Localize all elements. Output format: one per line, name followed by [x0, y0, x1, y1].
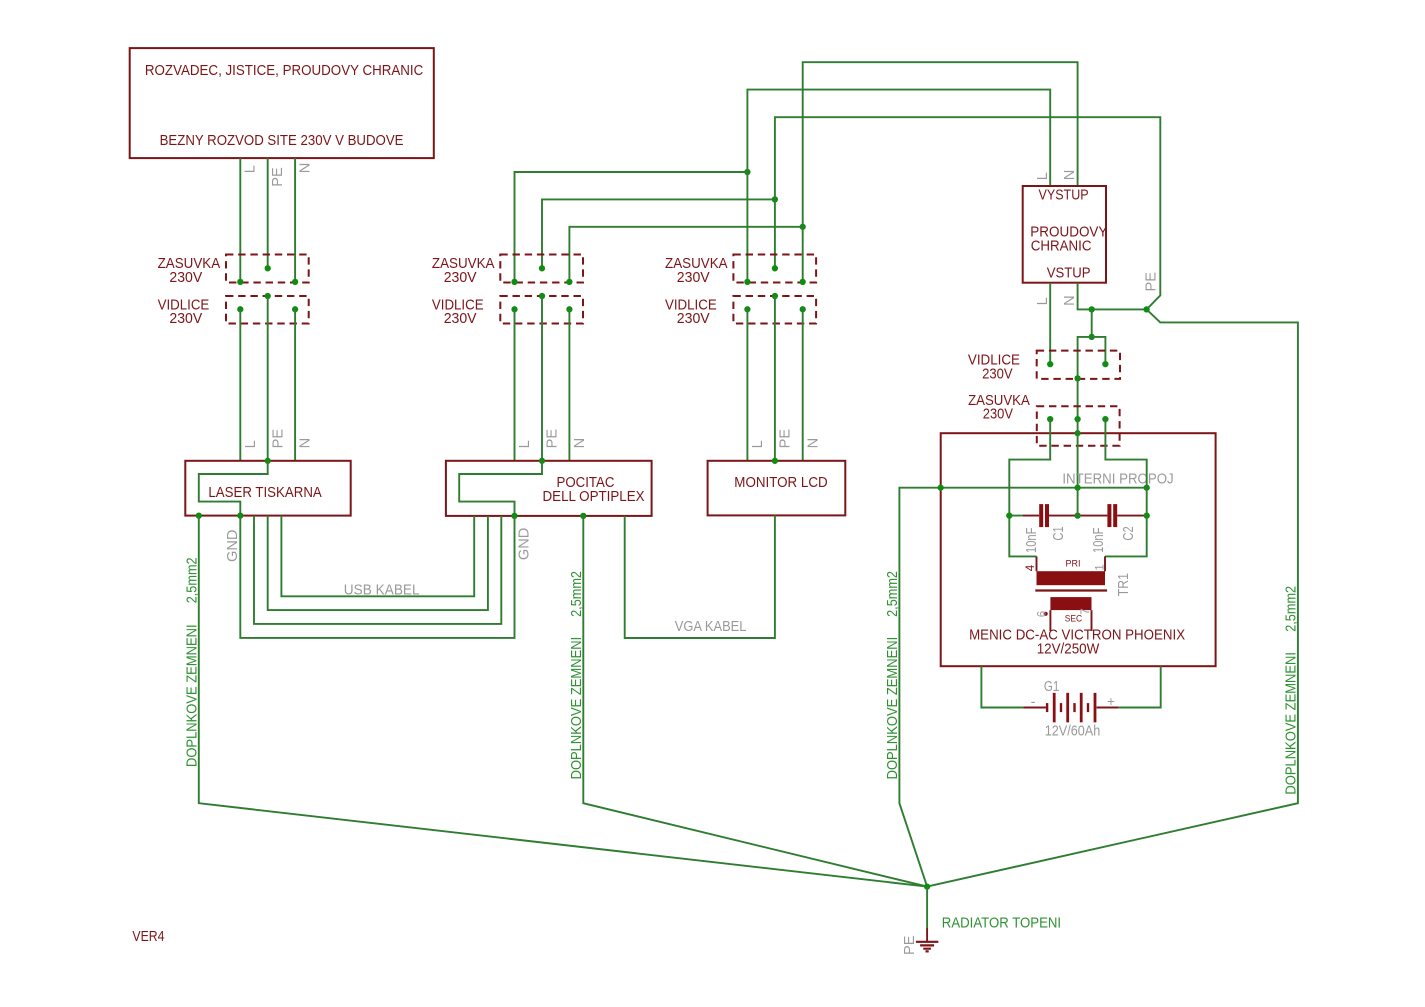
svg-text:6: 6: [1036, 611, 1048, 617]
pin label N (monitor box): [805, 438, 821, 449]
pin label PE (monitor box): [778, 429, 794, 449]
label VIDLICE (monitor): [665, 298, 717, 314]
wire vidlice split left: [1078, 337, 1092, 379]
svg-text:N: N: [805, 438, 821, 449]
pin label N (chranic top): [1062, 170, 1078, 181]
junction dot PE at cap row: [1074, 512, 1080, 518]
junction dot interni propoj N: [1144, 485, 1150, 491]
label 2,5mm2 (wire 2): [569, 571, 585, 617]
pin number 6 (TR1): [1036, 611, 1048, 617]
wire earth node to PE symbol: [926, 887, 928, 928]
svg-text:PE: PE: [902, 935, 918, 955]
junction dot L at cap row: [1006, 512, 1012, 518]
svg-text:VGA KABEL: VGA KABEL: [675, 619, 747, 635]
svg-text:N: N: [1062, 295, 1078, 306]
pin label L (pocitac box): [517, 440, 533, 448]
svg-text:CHRANIC: CHRANIC: [1031, 238, 1092, 254]
svg-text:2,5mm2: 2,5mm2: [1284, 586, 1300, 632]
svg-text:ROZVADEC, JISTICE, PROUDOVY CH: ROZVADEC, JISTICE, PROUDOVY CHRANIC: [145, 63, 423, 79]
svg-text:+: +: [1107, 694, 1115, 709]
junction dot PE (monitor branch): [772, 196, 778, 202]
transformer TR1 primary pin stubs: [1037, 556, 1106, 571]
svg-text:230V: 230V: [444, 270, 477, 286]
wire earth bond 1 (laser): [199, 516, 927, 887]
svg-text:DOPLNKOVE ZEMNENI: DOPLNKOVE ZEMNENI: [885, 637, 901, 780]
battery G1 short plate 1: [1046, 703, 1048, 712]
pin dot L (monitor zasuvka): [744, 279, 750, 285]
label ZASUVKA (pocitac): [432, 256, 495, 272]
wire interni propoj: [941, 487, 1147, 489]
svg-text:PE: PE: [1144, 272, 1160, 292]
battery G1 long plate 2: [1066, 693, 1069, 723]
capacitor C1 plate 2: [1045, 504, 1049, 527]
svg-text:VSTUP: VSTUP: [1047, 265, 1091, 281]
svg-text:MONITOR LCD: MONITOR LCD: [734, 475, 827, 491]
wire N (laser vidlice to printer): [294, 309, 296, 461]
label 2,5mm2 (wire 1): [184, 557, 200, 603]
wire N (chranic to PE tie): [1078, 283, 1147, 310]
name G1: [1044, 679, 1060, 695]
svg-text:230V: 230V: [169, 270, 202, 286]
transformer TR1 primary winding bar: [1037, 571, 1106, 585]
wire L (pocitac vidlice to PC): [514, 309, 516, 461]
battery G1 long plate 4: [1094, 693, 1097, 723]
svg-text:230V: 230V: [983, 407, 1013, 423]
wire PE (monitor drop): [774, 199, 776, 268]
pin dot PE entry (pocitac box top): [539, 458, 545, 464]
pin dot N (pocitac vidlice): [566, 306, 572, 312]
label VIDLICE (laser): [158, 298, 210, 314]
svg-text:L: L: [243, 440, 259, 448]
capacitor C1 pins: [1023, 515, 1075, 517]
svg-text:C2: C2: [1121, 526, 1137, 540]
polarity plus (G1): [1107, 694, 1115, 709]
junction dot interni propoj left: [938, 485, 944, 491]
pin dot PE entry (monitor box top): [772, 458, 778, 464]
wire battery negative: [981, 666, 1023, 707]
svg-text:7: 7: [1080, 608, 1092, 614]
label VIDLICE (menic): [968, 353, 1020, 369]
svg-text:230V: 230V: [677, 311, 710, 327]
wire L rail to chranic: [747, 90, 1050, 186]
svg-text:12V/250W: 12V/250W: [1037, 641, 1100, 657]
label VSTUP: [1047, 265, 1091, 281]
label VYSTUP: [1039, 188, 1089, 204]
pin label N (chranic bottom): [1062, 295, 1078, 306]
wire PE (zasuvka into menic): [1077, 419, 1079, 488]
svg-text:VYSTUP: VYSTUP: [1039, 188, 1089, 204]
label DOPLNKOVE ZEMNENI (wire 4): [1284, 652, 1300, 795]
wire PE (vidlice to zasuvka): [1077, 378, 1079, 419]
pin dot earth (laser box bottom left): [196, 512, 202, 518]
pin dot N (laser zasuvka): [292, 279, 298, 285]
wire PE zigzag inside pocitac box: [459, 461, 542, 516]
label LASER TISKARNA: [208, 485, 322, 501]
svg-text:4: 4: [1025, 564, 1037, 571]
label INTERNI PROPOJ: [1062, 471, 1173, 487]
wire N rail to chranic: [803, 62, 1078, 227]
value 10nF (C2): [1091, 528, 1107, 553]
pin stub PE ground symbol: [926, 928, 928, 941]
pin dot PE (pocitac zasuvka): [539, 265, 545, 271]
label 230V (pocitac vidlice): [444, 311, 477, 327]
plug VIDLICE 230V (monitor) dashed box: [733, 296, 816, 324]
pin dot PE (pocitac vidlice): [539, 293, 545, 299]
svg-text:230V: 230V: [444, 311, 477, 327]
wire N (pocitac vidlice to PC): [568, 309, 570, 461]
label CHRANIC: [1031, 238, 1092, 254]
svg-text:-: -: [1031, 695, 1036, 711]
pin dot L (laser zasuvka): [237, 279, 243, 285]
label 230V (laser vidlice): [169, 311, 202, 327]
label PROUDOVY: [1030, 225, 1107, 241]
svg-text:2,5mm2: 2,5mm2: [569, 571, 585, 617]
svg-text:N: N: [1062, 170, 1078, 181]
label 230V (menic zasuvka): [983, 407, 1013, 423]
label DOPLNKOVE ZEMNENI (wire 2): [569, 637, 585, 780]
socket ZASUVKA 230V (laser) dashed box: [226, 255, 309, 283]
wire N drop to vidlice: [1091, 309, 1093, 337]
pin label L (top box): [243, 165, 259, 173]
svg-text:BEZNY ROZVOD SITE 230V V BUDOV: BEZNY ROZVOD SITE 230V V BUDOVE: [160, 133, 404, 149]
battery G1 long plate 1: [1053, 693, 1056, 723]
svg-text:DELL OPTIPLEX: DELL OPTIPLEX: [543, 489, 645, 505]
svg-text:10nF: 10nF: [1024, 528, 1040, 553]
capacitor C2 pins: [1081, 515, 1144, 517]
label SEC: [1065, 614, 1082, 625]
wire PE rail bypass: [775, 117, 1160, 309]
wire earth bond 2 (pocitac): [583, 516, 927, 887]
wire L (monitor drop): [746, 172, 748, 282]
svg-text:N: N: [572, 438, 588, 449]
wire PE (laser column): [267, 158, 269, 268]
wire N (laser column): [294, 158, 296, 282]
svg-text:10nF: 10nF: [1091, 528, 1107, 553]
label ZASUVKA (laser): [158, 256, 221, 272]
svg-text:DOPLNKOVE ZEMNENI: DOPLNKOVE ZEMNENI: [569, 637, 585, 780]
label POCITAC: [557, 475, 615, 491]
plug VIDLICE 230V (laser) dashed box: [226, 296, 309, 324]
name C2: [1121, 526, 1137, 540]
name TR1: [1116, 573, 1132, 596]
label ZASUVKA (monitor): [665, 256, 728, 272]
pin dot earth (pocitac box bottom): [580, 513, 586, 519]
plug VIDLICE 230V (pocitac) dashed box: [500, 296, 583, 324]
svg-text:DOPLNKOVE ZEMNENI: DOPLNKOVE ZEMNENI: [1284, 652, 1300, 795]
pin number 7 (TR1): [1080, 608, 1092, 614]
transformer TR1 secondary leads: [1050, 610, 1091, 631]
svg-text:L: L: [1035, 297, 1051, 305]
box MENIC DC-AC VICTRON PHOENIX: [941, 433, 1216, 666]
box PROUDOVY CHRANIC (RCD): [1023, 186, 1106, 283]
pin number 1 (TR1): [1095, 564, 1107, 570]
pin dot PE (monitor vidlice): [772, 293, 778, 299]
ground symbol PE (earth): [916, 942, 938, 952]
wire earth bond 3 (menic): [899, 488, 940, 887]
pin dot PE entry (laser box top): [265, 458, 271, 464]
wire battery positive: [1119, 666, 1161, 707]
wire L branch (menic): [1009, 419, 1050, 556]
battery G1 short plate 4: [1087, 703, 1089, 712]
svg-text:L: L: [517, 440, 533, 448]
label VER4: [132, 929, 164, 945]
wire PE (laser vidlice to printer): [267, 296, 269, 461]
label ZASUVKA (menic): [968, 393, 1030, 409]
svg-text:PRI: PRI: [1066, 558, 1081, 569]
capacitor C2 plate 1: [1107, 504, 1111, 527]
pin label N (pocitac box): [572, 438, 588, 449]
pin dot N (pocitac zasuvka): [566, 279, 572, 285]
label GND (laser): [225, 530, 241, 562]
svg-text:2,5mm2: 2,5mm2: [885, 571, 901, 617]
svg-text:230V: 230V: [677, 270, 710, 286]
pin dot L (pocitac zasuvka): [511, 279, 517, 285]
pin label L (chranic top): [1035, 172, 1051, 180]
svg-text:TR1: TR1: [1116, 573, 1132, 596]
label 2,5mm2 (wire 4): [1284, 586, 1300, 632]
wire L (laser column, mains to socket): [239, 158, 241, 282]
pin label PE (pocitac box): [545, 429, 561, 449]
junction dot PE at menic top edge: [1074, 430, 1080, 436]
svg-text:N: N: [298, 438, 314, 449]
wire earth bond 4 (radiator): [927, 309, 1298, 886]
junction dot N/PE tie 1: [1089, 306, 1095, 312]
label 230V (monitor zasuvka): [677, 270, 710, 286]
pin dot PE (laser vidlice): [265, 293, 271, 299]
svg-text:230V: 230V: [982, 366, 1013, 382]
label GND (pocitac): [516, 528, 532, 560]
junction dot N at cap row: [1144, 512, 1150, 518]
capacitor C2 wire stubs: [1078, 515, 1147, 517]
svg-text:G1: G1: [1044, 679, 1060, 695]
svg-text:PE: PE: [270, 429, 286, 449]
socket ZASUVKA 230V (menic) dashed box: [1037, 406, 1120, 445]
box MONITOR LCD: [708, 461, 846, 516]
svg-text:GND: GND: [225, 530, 241, 562]
capacitor C2 plate 2: [1113, 504, 1117, 527]
wire PE (pocitac vidlice to PC): [541, 296, 543, 461]
wire N (pocitac riser): [569, 227, 802, 282]
svg-text:12V/60Ah: 12V/60Ah: [1045, 724, 1101, 740]
svg-text:1: 1: [1095, 564, 1107, 570]
label ROZVADEC, JISTICE, PROUDOVY CHRANIC: [145, 63, 423, 79]
transformer TR1 phase dot: [1044, 612, 1048, 616]
junction dot N (monitor branch): [800, 224, 806, 230]
label RADIATOR TOPENI: [942, 916, 1061, 932]
pin dot N (menic zasuvka): [1102, 416, 1108, 422]
junction dot N/PE tie 2: [1143, 306, 1149, 312]
pin dot GND (laser box bottom): [237, 512, 243, 518]
pin dot N (monitor zasuvka): [800, 279, 806, 285]
svg-text:L: L: [1035, 172, 1051, 180]
label MONITOR LCD: [734, 475, 827, 491]
box LASER TISKARNA: [185, 461, 350, 516]
plug VIDLICE 230V (menic) dashed box: [1037, 351, 1120, 379]
wire USB pair 3: [254, 516, 501, 624]
wire vidlice split right: [1092, 337, 1106, 364]
svg-text:230V: 230V: [169, 311, 202, 327]
label 230V (laser zasuvka): [169, 270, 202, 286]
svg-text:RADIATOR TOPENI: RADIATOR TOPENI: [942, 916, 1061, 932]
label DELL OPTIPLEX: [543, 489, 645, 505]
svg-text:C1: C1: [1051, 526, 1067, 540]
wire L (pocitac riser): [515, 172, 748, 282]
pin dot L (menic zasuvka): [1047, 416, 1053, 422]
label DOPLNKOVE ZEMNENI (wire 1): [184, 624, 200, 767]
pin dot N (monitor vidlice): [800, 306, 806, 312]
pin dot PE (monitor zasuvka): [772, 265, 778, 271]
label DOPLNKOVE ZEMNENI (wire 3): [885, 637, 901, 780]
wire USB pair 2: [268, 516, 488, 611]
pin dot L (monitor vidlice): [744, 306, 750, 312]
label 230V (menic vidlice): [982, 366, 1013, 382]
box POCITAC DELL OPTIPLEX: [446, 461, 652, 516]
wire VGA KABEL: [625, 515, 775, 638]
transformer TR1 secondary winding bar: [1050, 597, 1091, 610]
pin label L (monitor box): [750, 440, 766, 448]
pin label PE (bypass): [1144, 272, 1160, 292]
junction dot vidlice split: [1089, 334, 1095, 340]
wire PE (monitor vidlice to LCD): [774, 296, 776, 461]
polarity minus (G1): [1031, 695, 1036, 711]
svg-text:INTERNI PROPOJ: INTERNI PROPOJ: [1062, 471, 1173, 487]
pin dot L (pocitac vidlice): [511, 306, 517, 312]
pin dot N (laser vidlice): [292, 306, 298, 312]
pin dot N (menic vidlice): [1102, 361, 1108, 367]
label 12V/250W: [1037, 641, 1100, 657]
label VGA KABEL: [675, 619, 747, 635]
battery G1 long plate 3: [1080, 693, 1083, 723]
pin label PE (laser box): [270, 429, 286, 449]
pin dot PE (laser zasuvka): [265, 265, 271, 271]
battery G1 short plate 3: [1073, 703, 1075, 712]
pin number 4 (TR1): [1025, 564, 1037, 571]
pin label PE (top box): [270, 167, 286, 187]
socket ZASUVKA 230V (pocitac) dashed box: [500, 255, 583, 283]
battery G1 pin leads: [1023, 707, 1118, 709]
label PRI: [1066, 558, 1081, 569]
value 10nF (C1): [1024, 528, 1040, 553]
pin dot PE (menic zasuvka): [1074, 416, 1080, 422]
pin label L (chranic bottom): [1035, 297, 1051, 305]
wire USB pair 1: [281, 516, 474, 597]
pin dot L (laser vidlice): [237, 306, 243, 312]
capacitor C1 plate 1: [1039, 504, 1043, 527]
pin dot GND (pocitac box bottom): [511, 513, 517, 519]
svg-text:N: N: [298, 163, 314, 174]
wire PE (pocitac riser): [542, 199, 775, 268]
svg-text:L: L: [750, 440, 766, 448]
label 230V (monitor vidlice): [677, 311, 710, 327]
label BEZNY ROZVOD SITE 230V V BUDOVE: [160, 133, 404, 149]
battery G1 short plate 2: [1060, 703, 1062, 712]
svg-text:L: L: [243, 165, 259, 173]
svg-text:GND: GND: [516, 528, 532, 560]
junction dot earth node: [924, 883, 930, 889]
junction dot L (monitor branch): [744, 169, 750, 175]
wire PE zigzag inside laser box: [199, 461, 268, 516]
pin label L (laser box): [243, 440, 259, 448]
wire L (laser vidlice to printer): [239, 309, 241, 461]
name C1: [1051, 526, 1067, 540]
label 230V (pocitac zasuvka): [444, 270, 477, 286]
svg-text:PE: PE: [545, 429, 561, 449]
svg-text:USB KABEL: USB KABEL: [344, 583, 420, 599]
wire N (monitor drop): [802, 227, 804, 282]
svg-text:PE: PE: [778, 429, 794, 449]
svg-text:PE: PE: [270, 167, 286, 187]
label USB KABEL: [344, 583, 420, 599]
wire L (monitor vidlice to LCD): [746, 309, 748, 461]
svg-text:2,5mm2: 2,5mm2: [184, 557, 200, 603]
wire L (chranic to vidlice): [1049, 283, 1051, 364]
wire PE to cap center: [1077, 488, 1079, 516]
pin dot PE (menic vidlice): [1074, 375, 1080, 381]
label PE (ground): [902, 935, 918, 955]
svg-text:VER4: VER4: [132, 929, 164, 945]
socket ZASUVKA 230V (monitor) dashed box: [733, 255, 816, 283]
wire N branch (menic): [1105, 419, 1147, 556]
label MENIC DC-AC VICTRON PHOENIX: [969, 628, 1185, 644]
box: ROZVADEC JISTICE PROUDOVY CHRANIC (building mains): [130, 48, 434, 158]
wire N (monitor vidlice to LCD): [802, 309, 804, 461]
pin label N (laser box): [298, 438, 314, 449]
capacitor C1 wire stubs: [1009, 515, 1077, 517]
label 2,5mm2 (wire 3): [885, 571, 901, 617]
junction dot interni propoj PE: [1074, 485, 1080, 491]
svg-text:DOPLNKOVE ZEMNENI: DOPLNKOVE ZEMNENI: [184, 624, 200, 767]
value 12V/60Ah: [1045, 724, 1101, 740]
wire USB pair 4 (shield): [240, 516, 514, 638]
svg-text:LASER TISKARNA: LASER TISKARNA: [208, 485, 322, 501]
label VIDLICE (pocitac): [432, 298, 484, 314]
pin dot L (menic vidlice): [1047, 361, 1053, 367]
pin label N (top box): [298, 163, 314, 174]
transformer TR1 core: [1035, 589, 1107, 591]
